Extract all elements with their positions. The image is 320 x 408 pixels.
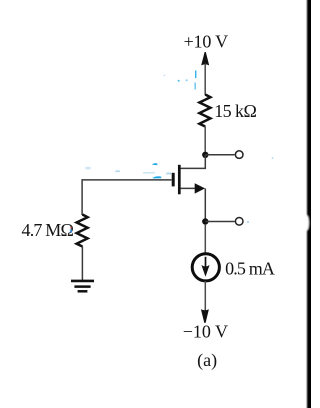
wire drain node to drain terminal <box>205 154 234 156</box>
ground bottom line <box>78 290 88 293</box>
current source I1 circle <box>192 254 219 281</box>
wire current source to VSS arrow <box>204 281 206 311</box>
drain node dot <box>202 152 208 158</box>
gate wire <box>82 179 172 181</box>
drain terminal circle <box>235 151 243 159</box>
source arrowhead <box>195 183 205 193</box>
svg-text:4.7 MΩ: 4.7 MΩ <box>22 220 74 240</box>
scan artifact cyan dash 2 <box>195 83 196 90</box>
source terminal circle <box>235 218 243 226</box>
svg-text:0.5 mA: 0.5 mA <box>225 258 275 278</box>
wire gate corner down to RG <box>81 179 83 215</box>
scan artifact faint specks near gate wire <box>115 170 119 172</box>
wire RG to ground <box>81 246 83 281</box>
scan artifact cyan dots <box>178 80 180 82</box>
wire RD to drain node <box>204 126 206 153</box>
current source arrow shaft <box>205 257 207 275</box>
scan artifact blue/red speck left of RG <box>70 229 72 232</box>
scan artifact cyan dash above gate wire <box>153 176 162 178</box>
page edge black bar <box>305 0 314 408</box>
resistor RG 4.7M zigzag <box>77 215 88 247</box>
wire drain node down and left to channel <box>180 155 205 169</box>
svg-text:+10 V: +10 V <box>184 32 229 52</box>
wire supply arrow to RD <box>204 64 206 96</box>
source wire inside transistor <box>180 187 197 189</box>
scan artifact specks right side <box>247 221 249 223</box>
source node dot <box>202 218 208 224</box>
wire source node to source terminal <box>205 221 234 223</box>
svg-text:15 kΩ: 15 kΩ <box>214 101 256 121</box>
scan artifact cyan dash 1 <box>195 71 196 79</box>
svg-text:(a): (a) <box>197 350 217 371</box>
ground top line <box>71 280 94 283</box>
wire source down to source node <box>204 188 206 219</box>
current source arrowhead <box>201 265 209 277</box>
scan artifact cyan swoosh <box>152 163 158 165</box>
mosfet Q1 channel bar <box>178 165 181 195</box>
VDD supply arrow <box>201 52 209 65</box>
resistor RD 15k zigzag <box>199 95 210 127</box>
mosfet Q1 gate bar <box>172 173 175 187</box>
ground middle line <box>74 285 90 288</box>
svg-text:−10 V: −10 V <box>183 322 228 342</box>
wire source node to current source <box>204 224 206 254</box>
VSS arrow down <box>201 309 209 323</box>
